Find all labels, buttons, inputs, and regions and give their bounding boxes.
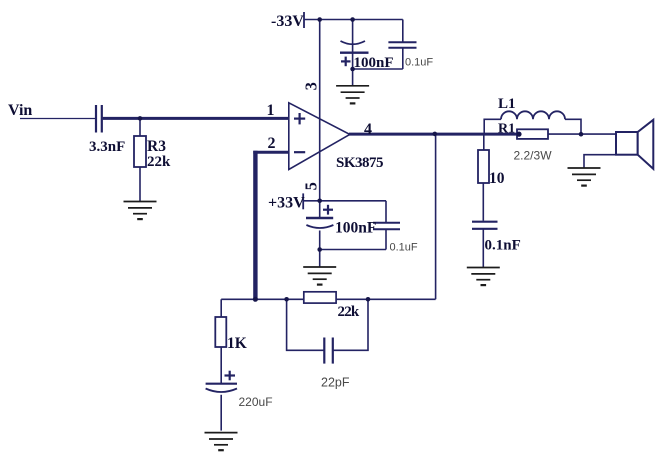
svg-text:0.1uF: 0.1uF bbox=[390, 242, 418, 254]
svg-text:Vin: Vin bbox=[8, 102, 32, 119]
svg-text:220uF: 220uF bbox=[239, 395, 273, 409]
svg-text:2.2/3W: 2.2/3W bbox=[514, 149, 553, 163]
svg-text:L1: L1 bbox=[498, 96, 516, 112]
svg-text:R3: R3 bbox=[147, 138, 166, 155]
svg-text:10: 10 bbox=[489, 170, 505, 187]
svg-text:4: 4 bbox=[364, 121, 372, 138]
svg-text:SK3875: SK3875 bbox=[336, 155, 383, 171]
svg-text:1: 1 bbox=[267, 102, 275, 119]
svg-text:22pF: 22pF bbox=[321, 376, 350, 390]
svg-text:1K: 1K bbox=[227, 335, 247, 352]
svg-text:3: 3 bbox=[301, 82, 320, 90]
svg-text:100nF: 100nF bbox=[335, 220, 376, 237]
svg-text:5: 5 bbox=[301, 182, 320, 190]
svg-text:22k: 22k bbox=[338, 304, 360, 320]
svg-text:22k: 22k bbox=[147, 154, 171, 170]
svg-text:2: 2 bbox=[268, 135, 276, 152]
svg-text:100nF: 100nF bbox=[354, 55, 394, 71]
svg-text:+33V: +33V bbox=[268, 195, 305, 212]
svg-text:0.1uF: 0.1uF bbox=[405, 57, 433, 69]
svg-text:R1: R1 bbox=[498, 122, 515, 137]
svg-text:3.3nF: 3.3nF bbox=[89, 139, 125, 155]
svg-text:0.1nF: 0.1nF bbox=[485, 238, 521, 254]
svg-text:-33V: -33V bbox=[271, 13, 304, 30]
